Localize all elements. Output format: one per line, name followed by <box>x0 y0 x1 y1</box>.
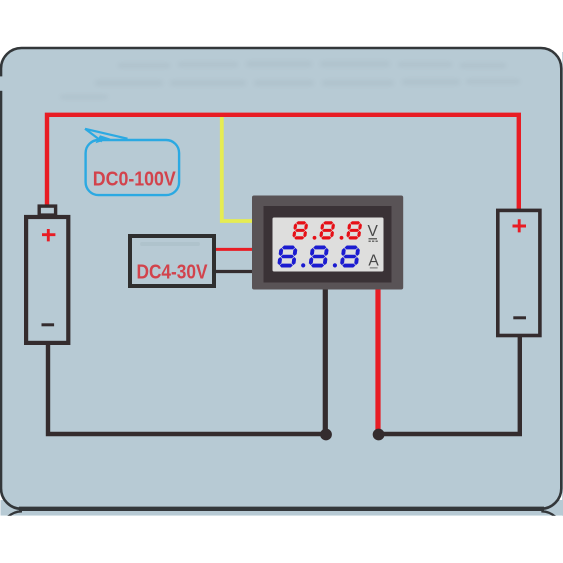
svg-text:DC4-30V: DC4-30V <box>137 261 209 283</box>
svg-text:DC0-100V: DC0-100V <box>93 169 177 191</box>
svg-text:V: V <box>368 223 379 240</box>
svg-text:A: A <box>368 253 379 270</box>
